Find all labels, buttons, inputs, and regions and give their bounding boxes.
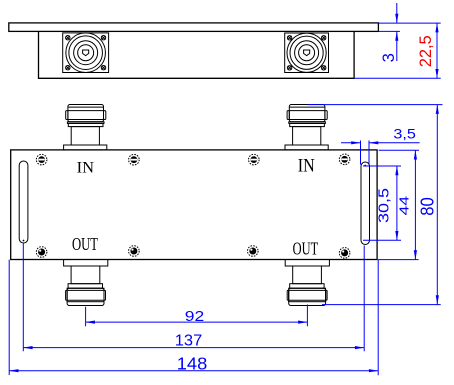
svg-text:3,5: 3,5 (393, 125, 416, 141)
top view lid plate (9, 23, 379, 32)
svg-text:148: 148 (177, 353, 208, 373)
dimension 3 (lid thickness) (378, 3, 440, 62)
svg-text:22,5: 22,5 (416, 35, 435, 67)
dimension 137 (slot spacing) (23, 244, 364, 352)
dimension 30,5 (slot length) (363, 166, 401, 240)
svg-text:80: 80 (418, 197, 438, 216)
cover screws top row (36, 154, 350, 165)
svg-text:137: 137 (175, 333, 203, 350)
dimension 22,5 (overall depth) (354, 23, 441, 78)
svg-text:44: 44 (396, 196, 411, 216)
label IN right (298, 156, 315, 177)
label OUT left (72, 234, 98, 254)
mounting slot right (361, 162, 370, 245)
dimension 92 (port spacing) (86, 305, 308, 327)
N connector top right (285, 105, 328, 150)
svg-text:92: 92 (185, 309, 205, 325)
N connector bottom left (64, 260, 108, 306)
mounting slot left (19, 161, 28, 243)
svg-text:3: 3 (380, 53, 398, 62)
label IN left (77, 159, 94, 176)
N connector flange J2 (top view right) (285, 33, 329, 73)
dimension 3,5 (slot width) (341, 125, 420, 164)
svg-text:OUT: OUT (72, 234, 98, 254)
front view body (11, 150, 377, 260)
dimension 148 (overall length) (9, 260, 378, 376)
svg-text:IN: IN (298, 156, 315, 177)
cover screws bottom row (36, 246, 350, 258)
svg-text:IN: IN (77, 159, 94, 176)
N connector flange J1 (top view left) (63, 33, 109, 73)
N connector bottom right (285, 260, 329, 306)
dimension 80 (overall height) (307, 105, 442, 305)
top view housing body (39, 31, 355, 78)
svg-text:30,5: 30,5 (376, 188, 393, 223)
label OUT right (293, 238, 319, 258)
dimension 44 (body height) (378, 150, 419, 259)
N connector top left (64, 105, 107, 150)
svg-text:OUT: OUT (293, 238, 319, 258)
